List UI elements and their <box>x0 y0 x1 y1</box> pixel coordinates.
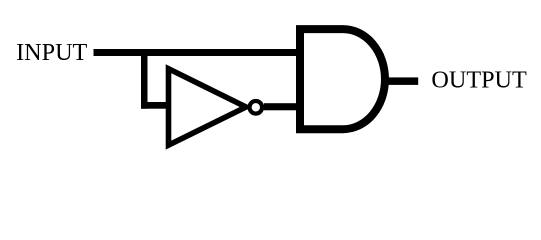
wire stub to inverter input <box>141 102 169 109</box>
AND gate U2 body <box>300 29 385 129</box>
inverter U1 bubble <box>250 101 263 114</box>
svg-text:OUTPUT: OUTPUT <box>431 66 527 93</box>
wire input to AND gate top input <box>94 49 303 56</box>
wire branch vertical drop <box>141 49 148 109</box>
wire inverter output to AND gate bottom input <box>264 103 299 110</box>
wire AND gate output stub <box>387 77 418 85</box>
svg-text:INPUT: INPUT <box>16 39 87 66</box>
inverter U1 triangle <box>169 69 247 145</box>
